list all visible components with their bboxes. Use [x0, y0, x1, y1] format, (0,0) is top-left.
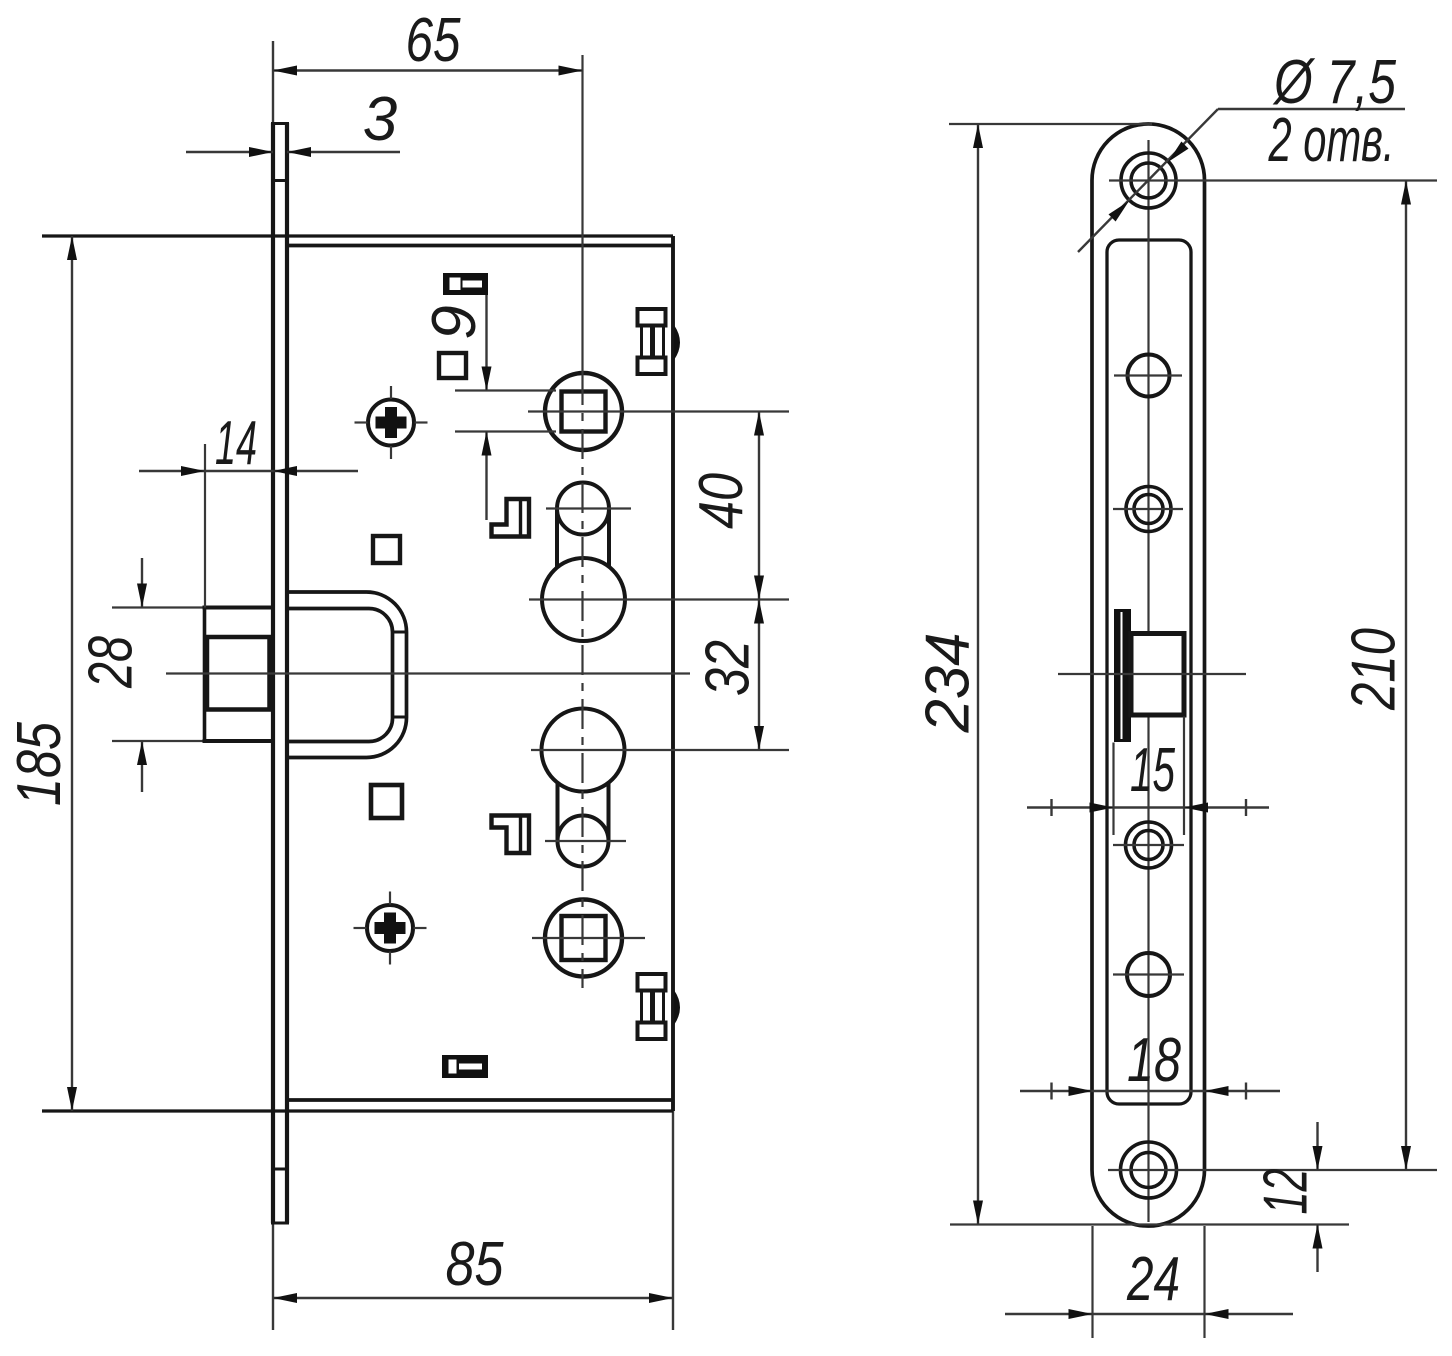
dim 12 line — [1316, 1122, 1318, 1170]
svg-text:32: 32 — [694, 640, 763, 696]
dim 32 arrow bottom — [754, 726, 764, 750]
cylinder cutout lower - small circle — [558, 816, 609, 867]
dim 85 line — [273, 1297, 673, 1299]
bent tab upper — [492, 499, 530, 537]
cylinder cutout upper small-circle tick — [546, 507, 631, 509]
dim 65 arrow right — [559, 66, 583, 76]
dim 185 arrow top — [67, 236, 77, 260]
dim 3 arrow left — [249, 147, 273, 157]
latch centerline — [166, 672, 690, 674]
dim 28 line — [141, 558, 143, 608]
dim 15 arrow right — [1184, 803, 1208, 813]
lower follower hub circle — [545, 900, 622, 977]
svg-text:65: 65 — [406, 6, 461, 75]
dim 9 line — [485, 295, 487, 391]
faceplate bottom end — [271, 1222, 289, 1225]
dim 14 arrow right — [273, 466, 297, 476]
dim 9 arrow bottom — [482, 432, 492, 456]
svg-text:14: 14 — [215, 409, 257, 478]
dim 9 arrow top — [482, 367, 492, 391]
dim 24 arrow right — [1205, 1309, 1229, 1319]
countersunk hole 4 outer — [1126, 822, 1172, 868]
svg-text:18: 18 — [1127, 1026, 1181, 1095]
spring clip lower — [638, 974, 666, 991]
dim 15 line — [1027, 806, 1269, 808]
svg-text:9: 9 — [420, 305, 489, 339]
dim 24 extensions — [1091, 1226, 1093, 1338]
svg-text:28: 28 — [77, 636, 146, 689]
faceplate left edge / extension line — [272, 41, 274, 1330]
cylinder cutout upper - right side — [607, 509, 611, 568]
lower spindle square hole — [562, 916, 606, 960]
latch head top edge — [112, 606, 205, 608]
faceplate lower weld tick — [273, 1168, 287, 1171]
dim 3 arrow right — [287, 147, 311, 157]
dim 9 extension lines — [455, 389, 556, 391]
cylinder cutout lower - left side — [556, 783, 560, 842]
latch head left edge — [203, 606, 207, 744]
bottom screw hole outer — [1121, 1142, 1177, 1198]
dim 24 line — [1005, 1313, 1293, 1315]
faceplate plate outline — [1092, 124, 1205, 1226]
cylinder cutout upper - small circle — [557, 483, 609, 535]
square hole A — [439, 353, 466, 378]
plain hole 2 — [1128, 355, 1170, 397]
cylinder upper centerline / dim extension — [529, 598, 789, 600]
hole 2 tick — [1114, 374, 1182, 376]
dim 65 arrow left — [273, 66, 297, 76]
lock case top flange line — [42, 234, 673, 237]
lower follower horizontal centerline — [532, 937, 645, 939]
hole 4 tick — [1113, 844, 1184, 846]
lock case bottom edge — [287, 1098, 673, 1102]
lock case bottom flange line — [42, 1109, 673, 1112]
latch body outer outline — [288, 592, 407, 758]
hole 5 tick — [1113, 973, 1184, 975]
bottom screw centerline / dim 12 extension — [1108, 1169, 1437, 1171]
dim 15 arrow left — [1090, 803, 1114, 813]
leader shelf — [1218, 108, 1405, 110]
top screw hole inner — [1131, 163, 1166, 198]
svg-text:210: 210 — [1340, 628, 1409, 711]
dim 15 stop ticks — [1050, 799, 1052, 816]
spindle horizontal centerline / dim 40 extension — [528, 410, 789, 412]
hole 3 tick — [1113, 508, 1183, 510]
countersunk hole 3 inner — [1134, 495, 1163, 524]
slotted hole lower — [443, 1056, 487, 1077]
dim 12 arrow bottom — [1313, 1225, 1323, 1249]
faceplate vertical centerline — [1147, 140, 1149, 1222]
fixing screw top centerline ticks — [390, 386, 392, 399]
dim 14 extension line — [204, 444, 206, 608]
fixing screw bottom cross — [375, 913, 406, 944]
dim 15 extensions — [1112, 743, 1114, 836]
cylinder cutout lower - big circle — [542, 709, 625, 792]
svg-text:12: 12 — [1252, 1169, 1321, 1215]
lock case top edge — [287, 244, 673, 248]
svg-text:15: 15 — [1130, 736, 1175, 805]
slotted hole upper — [444, 274, 487, 294]
top screw centerline / dim 210 extension — [1109, 179, 1437, 181]
dim 3 line — [186, 151, 273, 153]
dim 12 arrow top — [1313, 1146, 1323, 1170]
latch side centerline — [1058, 673, 1246, 675]
dim 85 arrow right — [649, 1293, 673, 1303]
latch body inner outline — [288, 609, 393, 742]
latch side black bar — [1114, 609, 1131, 742]
dim 18 arrow right — [1205, 1086, 1229, 1096]
dim 24 arrow left — [1069, 1309, 1093, 1319]
dim 14 arrow left — [181, 466, 205, 476]
leader arrow lower — [1109, 201, 1130, 222]
svg-text:24: 24 — [1126, 1245, 1180, 1314]
dim 185 arrow bottom — [67, 1087, 77, 1111]
bottom screw hole inner — [1131, 1153, 1166, 1188]
dim 185 line — [71, 236, 73, 1111]
svg-text:40: 40 — [687, 473, 756, 529]
dim 14 line — [139, 470, 358, 472]
dim 18 stop ticks — [1050, 1083, 1052, 1100]
main vertical centerline — [581, 55, 583, 375]
latch body junction tick bottom — [393, 716, 407, 719]
fixing screw top circle — [368, 400, 414, 446]
dim 85 arrow left — [273, 1293, 297, 1303]
dim 234 arrow top — [973, 124, 983, 148]
dim 18 arrow left — [1069, 1086, 1093, 1096]
latch bolt bevel face — [207, 637, 270, 710]
lock case right edge — [671, 236, 675, 1111]
dim 234 arrow bottom — [973, 1201, 983, 1225]
dim 65 line — [273, 69, 583, 71]
spring clip upper — [638, 309, 666, 326]
spindle square hole — [562, 392, 606, 432]
dim 28 arrow bottom — [137, 741, 147, 765]
dim 234 top extension — [949, 123, 1152, 125]
svg-text:185: 185 — [5, 722, 74, 806]
dim 32 arrow top — [754, 600, 764, 624]
svg-text:234: 234 — [914, 633, 983, 734]
square hole B — [373, 536, 400, 563]
latch bolt side view — [1131, 634, 1184, 716]
cylinder cutout upper - big circle — [542, 558, 625, 641]
dim 210 arrow bottom — [1401, 1146, 1411, 1170]
faceplate upper weld tick — [273, 179, 287, 182]
dim 18 line — [1020, 1090, 1280, 1092]
countersunk hole 3 outer — [1126, 487, 1171, 532]
lock case right edge extension — [672, 1111, 674, 1330]
dim 40 arrow bottom — [754, 576, 764, 600]
dim 234 bottom extension — [950, 1223, 1349, 1225]
svg-text:85: 85 — [446, 1230, 504, 1299]
fixing screw top cross — [376, 407, 407, 438]
dim 40 line — [758, 412, 760, 600]
plain hole 5 — [1127, 953, 1170, 996]
top screw hole outer — [1121, 153, 1176, 208]
bent tab lower — [492, 816, 530, 854]
cylinder cutout lower small-circle tick — [545, 840, 626, 842]
svg-text:2 отв.: 2 отв. — [1268, 106, 1395, 175]
dim 40 arrow top — [754, 412, 764, 436]
fixing screw bottom circle — [367, 905, 413, 951]
fixing screw bottom centerline ticks — [389, 892, 391, 905]
faceplate right edge — [285, 123, 289, 1223]
dim 32 line — [758, 600, 760, 751]
faceplate recess inner outline — [1107, 240, 1191, 1104]
cylinder cutout upper - left side — [555, 509, 559, 568]
dim 28 arrow top — [137, 584, 147, 608]
cylinder lower centerline / dim extension — [531, 749, 789, 751]
svg-text:3: 3 — [363, 85, 397, 154]
faceplate top end — [271, 122, 289, 125]
leader diagonal — [1078, 109, 1218, 252]
cylinder cutout lower - right side — [607, 783, 611, 842]
countersunk hole 4 inner — [1134, 831, 1163, 860]
spindle follower hub circle — [545, 373, 622, 450]
dim 234 line — [977, 124, 979, 1225]
latch head bottom edge — [112, 740, 205, 742]
latch body junction tick top — [393, 631, 407, 634]
dim 210 arrow top — [1401, 181, 1411, 205]
square hole C — [371, 785, 402, 818]
dim 210 line — [1405, 181, 1407, 1171]
leader arrow upper — [1168, 142, 1189, 163]
